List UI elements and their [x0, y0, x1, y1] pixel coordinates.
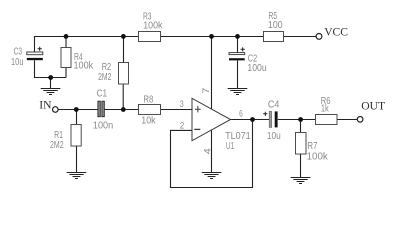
- wire R1 top lead: [76, 110, 78, 125]
- svg-text:100k: 100k: [74, 61, 95, 72]
- wire C2 top lead: [237, 37, 239, 53]
- wire C1 to R8: [105, 109, 139, 111]
- svg-text:10u: 10u: [11, 57, 24, 68]
- svg-text:C4: C4: [268, 99, 280, 110]
- svg-text:C3: C3: [14, 47, 23, 58]
- wire C2 bottom to ground: [237, 60, 239, 88]
- svg-text:100k: 100k: [307, 152, 329, 163]
- svg-text:4: 4: [201, 148, 212, 154]
- svg-text:3: 3: [180, 98, 184, 109]
- resistor R6: [316, 115, 338, 125]
- ground R1: [67, 173, 87, 179]
- wire R1 bottom to ground: [76, 146, 78, 173]
- wire R7 top lead: [300, 120, 302, 133]
- svg-text:1k: 1k: [321, 104, 330, 115]
- op-amp U1 triangle: [192, 98, 231, 140]
- svg-text:VCC: VCC: [324, 25, 348, 38]
- ground C2: [228, 89, 248, 95]
- svg-text:2M2: 2M2: [98, 72, 112, 83]
- junction C3 ground: [48, 75, 53, 80]
- svg-text:2M2: 2M2: [50, 140, 64, 151]
- wire top rail left: [35, 37, 139, 53]
- wire R2 top lead: [123, 37, 125, 63]
- svg-text:OUT: OUT: [361, 99, 385, 112]
- junction R4 top: [64, 34, 69, 39]
- wire op-amp pin7 V+: [211, 37, 213, 110]
- ground U1 pin4: [202, 173, 222, 179]
- svg-text:U1: U1: [226, 141, 235, 152]
- wire R8 to pin3: [160, 109, 192, 111]
- svg-text:100: 100: [268, 20, 283, 31]
- svg-text:100n: 100n: [93, 121, 113, 132]
- capacitor C2: [229, 47, 245, 60]
- resistor R1: [71, 125, 81, 147]
- wire output to C4: [231, 119, 270, 121]
- terminal IN: [53, 107, 59, 113]
- svg-text:R8: R8: [143, 94, 153, 105]
- svg-text:IN: IN: [39, 98, 52, 111]
- wire R2 bottom lead: [122, 84, 124, 110]
- svg-text:100u: 100u: [247, 63, 266, 74]
- ground C3: [41, 89, 61, 95]
- wire C3 bottom to R4 bottom: [35, 60, 67, 77]
- junction R7 output: [298, 117, 303, 122]
- resistor R4: [61, 48, 71, 68]
- svg-text:10k: 10k: [141, 116, 156, 127]
- ground R7: [291, 178, 311, 184]
- capacitor C4: [263, 111, 277, 127]
- wire ground stem C3: [50, 78, 52, 89]
- junction R2 top: [121, 34, 126, 39]
- wire C4 to R6: [278, 119, 316, 121]
- junction feedback output: [250, 117, 255, 122]
- svg-text:10u: 10u: [267, 131, 281, 142]
- wire R4 bottom lead: [65, 67, 67, 77]
- svg-text:100k: 100k: [143, 21, 163, 32]
- svg-text:2: 2: [180, 119, 185, 130]
- wire top rail middle: [161, 36, 264, 38]
- wire IN to C1: [58, 109, 98, 111]
- resistor R7: [296, 133, 307, 155]
- junction C1 R2 R8: [121, 107, 126, 112]
- svg-text:7: 7: [200, 88, 211, 94]
- wire R6 to OUT: [337, 119, 357, 121]
- resistor R3: [139, 32, 161, 42]
- wire feedback pin2 loop: [171, 120, 253, 188]
- capacitor C3: [27, 47, 43, 61]
- svg-text:6: 6: [239, 108, 243, 119]
- resistor R8: [139, 105, 161, 115]
- svg-text:R7: R7: [307, 141, 318, 152]
- terminal VCC: [316, 34, 322, 40]
- junction C2 rail: [235, 34, 240, 39]
- resistor R5: [264, 32, 284, 42]
- wire top rail right: [284, 36, 317, 38]
- wire op-amp pin4 to ground: [211, 130, 213, 173]
- terminal OUT: [357, 117, 363, 123]
- svg-text:C1: C1: [97, 89, 108, 100]
- wire R4 top lead: [65, 37, 67, 48]
- junction pin7 rail: [209, 34, 214, 39]
- wire R7 bottom to ground: [300, 154, 302, 178]
- capacitor C1: [98, 101, 104, 117]
- junction R1 input: [74, 107, 79, 112]
- resistor R2: [119, 63, 129, 85]
